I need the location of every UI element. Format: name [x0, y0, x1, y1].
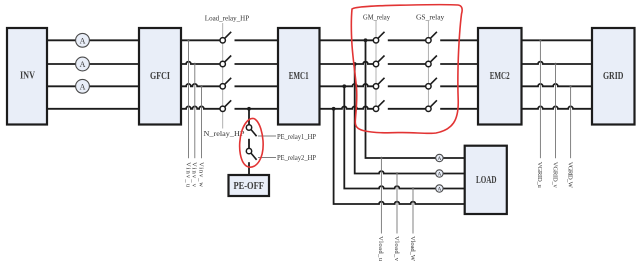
wire feeder neutral to LOAD (hops at Vload taps) — [334, 109, 465, 204]
svg-text:VGRID_u: VGRID_u — [536, 162, 543, 189]
node tap VGRID_w on line3 — [569, 85, 571, 87]
node tap Vinv_w on line3 — [200, 85, 202, 87]
wire line4 EMC2-GRID (hops at VGRID taps) — [522, 106, 593, 108]
block GRID — [592, 28, 635, 125]
svg-text:Vinv_w: Vinv_w — [197, 162, 204, 187]
net label VGRID_u — [536, 162, 543, 189]
wire line1 EMC1-GM (tap dot at 365.5) — [320, 39, 374, 41]
node tap Vinv_u on line1 — [187, 39, 189, 41]
wire line3 EMC1-GM (hops 354.7 365.5) — [320, 84, 374, 86]
svg-text:Vinv_u: Vinv_u — [184, 162, 191, 188]
svg-text:PE_relay1_HP: PE_relay1_HP — [277, 133, 316, 141]
node PE drop junction — [247, 107, 251, 111]
wire PE drop middle — [248, 139, 250, 149]
switch GM phase1 — [373, 32, 384, 43]
wire Vload_w tap vertical — [412, 189, 414, 234]
net label Vload_u — [377, 236, 384, 262]
leader PE_relay2 — [258, 157, 276, 159]
wire line1 GM-GS — [388, 39, 426, 41]
wire line3 INV-GFCI — [47, 85, 139, 87]
block EMC1 — [278, 28, 320, 125]
switch GM phase2 — [373, 56, 384, 67]
red highlight around GM/GS relays — [351, 5, 462, 134]
svg-text:N_relay_HP: N_relay_HP — [204, 130, 245, 138]
svg-text:A: A — [437, 172, 441, 178]
switch PE_relay1 — [246, 125, 256, 136]
wire line4 GFCI-switch (hops at Vinv taps) — [181, 106, 220, 108]
switch GM line4 — [373, 100, 384, 111]
block EMC2 — [478, 28, 522, 125]
net label Vinv_v — [191, 162, 198, 188]
ammeter A2 — [76, 57, 90, 71]
wire line4 EMC1-GM (hops 344.3 354.7 365.5) — [320, 106, 374, 108]
block INV — [7, 28, 47, 125]
wire line4 INV-GFCI — [47, 108, 139, 110]
net label VGRID_v — [551, 162, 558, 189]
block LOAD — [465, 146, 507, 214]
svg-text:EMC2: EMC2 — [490, 71, 510, 82]
svg-text:Vinv_v: Vinv_v — [191, 162, 198, 188]
wire line3 EMC2-GRID (hops at VGRID_u VGRID_v) — [522, 84, 593, 86]
wire line3 GS-EMC2 — [440, 85, 478, 87]
switch N_relay line4 — [220, 100, 231, 111]
svg-text:A: A — [80, 82, 86, 91]
wire Vload_v tap vertical — [396, 174, 398, 234]
svg-text:Vload_v: Vload_v — [393, 236, 400, 262]
switch GS phase1 — [426, 32, 437, 43]
block PE-OFF — [229, 175, 270, 196]
ammeter A3 — [76, 79, 90, 93]
svg-text:GS_relay: GS_relay — [416, 13, 445, 21]
svg-text:A: A — [437, 187, 441, 193]
ammeter load A1 — [436, 154, 443, 162]
leader PE_relay1 — [258, 135, 276, 137]
wire line1 switch-EMC1 — [235, 39, 279, 41]
node tap Vload_u — [380, 157, 382, 159]
svg-text:LOAD: LOAD — [476, 175, 497, 186]
svg-text:GM_relay: GM_relay — [363, 13, 390, 21]
wire line2 GFCI-switch (hop at Vinv_u tap) — [181, 62, 220, 64]
net label VGRID_W — [566, 162, 573, 189]
node tap Vinv_v on line2 — [194, 63, 196, 65]
wire line1 GS-EMC2 — [440, 39, 478, 41]
wire VGRID_w tap vertical — [570, 86, 572, 158]
svg-text:PE-OFF: PE-OFF — [233, 181, 264, 192]
wire line2 INV-GFCI — [47, 63, 139, 65]
wire line3 switch-EMC1 — [235, 85, 279, 87]
wire line2 GM-GS — [388, 63, 426, 65]
wire line1 GFCI-switch — [181, 39, 220, 41]
switch GS phase3 — [426, 78, 437, 89]
node feeder tap line3 — [342, 84, 346, 88]
svg-text:Vload_W: Vload_W — [409, 236, 416, 262]
svg-text:GRID: GRID — [603, 71, 624, 82]
wire line2 EMC1-GM (hop 365.5) — [320, 62, 374, 64]
wire Vinv_v tap vertical — [194, 64, 196, 158]
switch Load_relay phase1 — [220, 32, 231, 43]
net label Vload_v — [393, 236, 400, 262]
svg-text:VGRID_W: VGRID_W — [566, 162, 573, 189]
wire Vinv_u tap vertical — [188, 40, 190, 158]
svg-text:Vload_u: Vload_u — [377, 236, 384, 262]
wire PE drop lower — [248, 162, 250, 175]
switch Load_relay phase3 — [220, 78, 231, 89]
net label Vinv_u — [184, 162, 191, 188]
wire VGRID_u tap vertical — [539, 40, 541, 158]
wire line1 INV-GFCI — [47, 39, 139, 41]
net label Vinv_w — [197, 162, 204, 187]
wire line2 GS-EMC2 — [440, 63, 478, 65]
svg-text:Load_relay_HP: Load_relay_HP — [205, 15, 249, 23]
wire PE drop upper — [248, 109, 250, 125]
wire line4 GM-GS — [388, 108, 426, 110]
net label Vload_W — [409, 236, 416, 262]
relay stem GM_relay — [375, 21, 377, 111]
wire line2 EMC2-GRID (hop at VGRID_u tap) — [522, 62, 593, 64]
wire feeder phase1 to LOAD — [366, 40, 465, 158]
svg-text:EMC1: EMC1 — [289, 71, 309, 82]
ammeter load A3 — [436, 185, 443, 193]
switch GS phase2 — [426, 56, 437, 67]
node tap Vload_w — [412, 187, 414, 189]
wire VGRID_v tap vertical — [555, 64, 557, 158]
red highlight around PE relays — [240, 118, 264, 167]
wire line3 GFCI-switch (hops at Vinv_u, Vinv_v taps) — [181, 84, 220, 86]
svg-text:INV: INV — [20, 71, 35, 82]
wire feeder phase2 to LOAD (hop at Vload_u tap) — [355, 64, 465, 174]
node tap Vload_v — [396, 172, 398, 174]
node tap VGRID_v on line2 — [554, 63, 556, 65]
block GFCI — [139, 28, 181, 125]
svg-text:A: A — [80, 60, 86, 69]
node feeder tap line1 — [364, 38, 368, 42]
wire line4 switch-EMC1 — [235, 108, 279, 110]
ammeter load A2 — [436, 170, 443, 178]
svg-text:PE_relay2_HP: PE_relay2_HP — [277, 154, 316, 162]
switch GM phase3 — [373, 78, 384, 89]
wire line3 GM-GS — [388, 85, 426, 87]
svg-text:VGRID_v: VGRID_v — [551, 162, 558, 189]
wire Vinv_w tap vertical — [201, 86, 203, 158]
relay stem Load_relay — [222, 23, 224, 129]
switch GS line4 — [426, 100, 437, 111]
svg-text:A: A — [80, 36, 86, 45]
wire line2 switch-EMC1 — [235, 63, 279, 65]
ammeter A1 — [76, 33, 90, 47]
relay stem GS_relay — [427, 21, 429, 111]
node feeder tap line4 — [332, 107, 336, 111]
switch Load_relay phase2 — [220, 56, 231, 67]
svg-text:GFCI: GFCI — [150, 71, 170, 82]
switch PE_relay2 — [246, 148, 256, 159]
svg-text:A: A — [437, 156, 441, 162]
wire line4 GS-EMC2 — [440, 108, 478, 110]
node feeder tap line2 — [353, 62, 357, 66]
node tap VGRID_u on line1 — [539, 39, 541, 41]
wire feeder phase3 to LOAD (hops at Vload_u Vload_v) — [344, 86, 464, 188]
wire Vload_u tap vertical — [380, 158, 382, 234]
wire line1 EMC2-GRID — [522, 39, 593, 41]
